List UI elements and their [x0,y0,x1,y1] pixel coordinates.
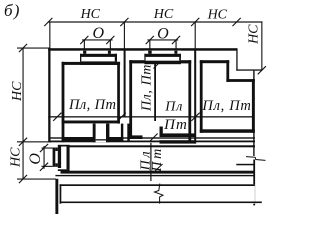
svg-text:НС: НС [207,8,228,23]
svg-text:Пт: Пт [150,146,165,173]
svg-text:НС: НС [246,24,261,45]
room 3 top edge [200,60,229,63]
svg-text:НС: НС [9,147,24,168]
svg-text:Пл, Пт: Пл, Пт [201,98,251,114]
svg-text:б): б) [4,1,21,20]
extension line left dim y=48 [17,48,50,49]
room 2 right edge [188,60,191,142]
lower-left exterior wall [55,179,58,214]
tick on room 2 divider [154,61,162,69]
svg-text:Пт: Пт [163,117,188,133]
extension line left dim y=179 [17,179,56,180]
window 3 (left, rotated) [53,145,70,172]
window 1 [80,51,117,65]
svg-text:Пл, Пт: Пл, Пт [68,97,116,113]
room 1 left edge [62,62,65,142]
window 2 [144,51,181,64]
window O2 dimension [147,39,178,40]
cell A right vertical [93,124,96,143]
room 1 bottom edge [62,121,120,124]
room2 bottom edge left thick segment [129,135,142,139]
tick marks on left dimension line [19,44,27,183]
exterior wall step vertical right [236,48,237,70]
room 3 notch vertical [226,60,229,82]
svg-text:О: О [27,153,44,165]
thin wall centre line rooms 1-2 [124,49,126,118]
exterior wall step horizontal right [236,69,262,70]
right exterior wall upper [253,71,254,156]
thin wall centre line rooms 2-3 [194,49,196,144]
right vertical dimension line [261,21,262,70]
room 1 right edge [117,62,120,124]
room 3 notch horizontal [226,79,254,82]
right side extra line mid corridor [236,164,255,166]
window O1 dimension [82,39,113,40]
top exterior wall [48,48,237,51]
svg-text:Пл: Пл [164,100,183,115]
room2 bottom edge right segment [160,133,196,137]
wall 1-2 bar right [127,124,130,141]
break symbol bottom slab [155,184,164,204]
room 1 top edge [62,62,121,65]
corridor top wall line 1 [50,137,255,138]
extension line left dim y=141.8 [17,141,52,142]
wall 1-2 bar left [121,124,123,141]
tab B foot [106,137,123,142]
left exterior wall [48,48,50,142]
corridor slab line [68,145,255,147]
tick mark on right dimension line [258,66,266,74]
corridor divider line [150,143,151,181]
svg-text:О: О [157,25,169,42]
svg-text:НС: НС [10,81,25,102]
corridor top wall line 2 [50,141,255,143]
room2 door tab vertical [160,127,163,138]
svg-text:НС: НС [153,7,174,22]
svg-text:НС: НС [80,7,101,22]
tick on corridor divider top [150,134,158,142]
extension line top dim left end [49,22,50,48]
room 2 interior divider [154,63,156,121]
extension line top dim x=124.4 [124,22,125,49]
bottom corridor wall thick [61,171,256,174]
thin joint line across plan y=116.8 [48,116,252,117]
O3 dimension (left window) [44,146,45,169]
room 3 left edge [200,60,203,133]
extension line top dim x=193.9 [195,22,196,49]
svg-text:Пл, Пт: Пл, Пт [140,64,155,112]
cell A bottom bar [62,137,96,142]
room 3 right edge [252,79,255,133]
top dimension line [48,21,262,22]
room 2 left edge [129,60,132,139]
door gap single line [96,137,106,143]
room 3 bottom edge [200,129,255,133]
break symbol right wall [246,157,266,161]
svg-text:О: О [93,25,105,42]
tick on corridor bottom wall [155,164,163,172]
left dimension line [23,48,24,180]
right exterior wall lower [253,160,255,206]
bottom slab rectangle [60,184,262,203]
tick marks on top dimension line [44,18,241,26]
tab B vertical [106,124,109,143]
bottom corridor wall thin [55,175,255,176]
room2 corridor wall bar [160,140,196,143]
tick on joint line at wall axis left [53,113,199,121]
room 2 top edge [129,60,191,63]
